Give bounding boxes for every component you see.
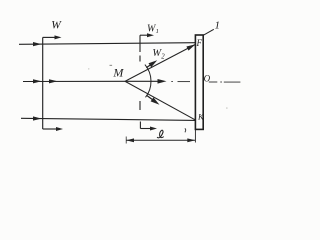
label l (script ell): [157, 130, 164, 138]
short direction arrow W2 (above axis): [146, 64, 152, 68]
small comma mark: [184, 128, 187, 132]
svg-text:O: O: [204, 73, 211, 83]
ray 2 (middle, axis): [23, 80, 125, 82]
ray 2 arrowhead A: [33, 79, 42, 83]
horizontal arrow from M along axis: [125, 80, 159, 82]
optical axis dash-dot right of plate: [209, 81, 241, 83]
dimension line l: [126, 139, 195, 141]
wavefront W1 bottom corner arrow: [140, 127, 157, 131]
dimension extension tick under M: [125, 137, 127, 144]
leader line to label 1: [203, 29, 214, 35]
line M to F with end arrowhead: [125, 44, 195, 81]
line M to K: [125, 81, 196, 120]
ray 1 (top): [19, 43, 196, 45]
paper specks: [110, 65, 113, 66]
svg-text:2: 2: [161, 53, 165, 60]
svg-text:1: 1: [215, 20, 221, 32]
ray 3 (bottom): [21, 118, 196, 120]
ray 2 arrowhead B: [49, 79, 58, 83]
wavefront W1 top corner arrow: [140, 33, 154, 37]
wavefront W vertical line: [42, 37, 44, 129]
ray 3 arrowhead: [33, 116, 42, 120]
optical axis dash-dot left of plate: [171, 81, 190, 83]
plate 1 (photographic plate): [195, 35, 203, 129]
svg-text:M: M: [112, 66, 124, 80]
wavefront W bottom corner arrow: [43, 127, 63, 131]
svg-text:F: F: [195, 38, 202, 48]
dimension extension line below plate: [194, 130, 196, 143]
wavefront W top corner arrow: [43, 35, 62, 39]
wavefront W1 line (solid top, dashed below): [139, 35, 141, 128]
ray 1 arrowhead: [33, 42, 42, 46]
svg-text:W: W: [51, 20, 62, 32]
svg-text:1: 1: [156, 28, 159, 35]
arc wavefront W2: [145, 65, 151, 98]
short direction arrow below axis (on M-K side): [147, 95, 155, 101]
